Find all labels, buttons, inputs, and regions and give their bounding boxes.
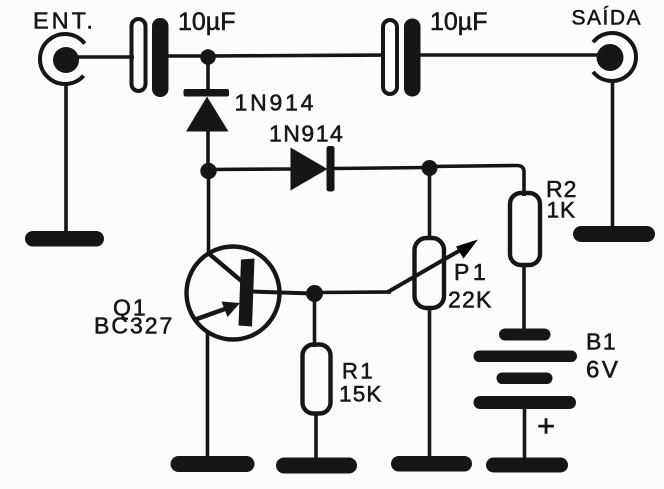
wire node C down to pot top: [428, 168, 432, 240]
svg-text:10µF: 10µF: [430, 8, 487, 36]
wire C1 to node A: [168, 54, 206, 58]
svg-text:BC327: BC327: [94, 313, 174, 339]
svg-text:1N914: 1N914: [235, 90, 317, 116]
wire node C to R2 (corner): [429, 166, 524, 197]
wire top rail node A to C2: [208, 55, 385, 56]
wire jack to C1: [78, 55, 134, 59]
wire node D to pot arrow: [314, 290, 391, 294]
svg-text:1K: 1K: [547, 198, 577, 223]
wire R2 to battery: [522, 265, 526, 332]
node B: [200, 163, 216, 179]
svg-text:P1: P1: [454, 259, 489, 285]
svg-text:6V: 6V: [586, 357, 620, 384]
svg-text:ENT.: ENT.: [33, 8, 96, 34]
svg-text:SAÍDA: SAÍDA: [572, 7, 643, 30]
ground (Q1 emitter): [171, 456, 255, 472]
ground (input): [25, 231, 104, 247]
wire node B to D2: [208, 167, 292, 171]
svg-text:1N914: 1N914: [269, 121, 344, 147]
battery B1: [474, 329, 578, 410]
svg-text:15K: 15K: [339, 382, 383, 407]
ground (battery): [486, 458, 568, 473]
wire D2 to node C: [334, 168, 428, 169]
wire Q1 emitter to ground: [206, 332, 210, 458]
wire pot bottom to ground: [428, 307, 432, 459]
wire node D down to R1: [313, 294, 317, 347]
ground (pot): [391, 456, 472, 472]
svg-text:10µF: 10µF: [178, 8, 235, 36]
potentiometer P1: [387, 238, 478, 308]
svg-text:B1: B1: [586, 329, 617, 355]
input jack ENT.: [40, 34, 85, 84]
node C: [422, 160, 438, 176]
wire D1 to node B: [206, 131, 210, 168]
ground (R1): [276, 458, 357, 474]
node D (base node): [306, 285, 323, 302]
wire node A down to D1: [206, 57, 210, 92]
svg-text:R1: R1: [342, 359, 375, 384]
wire battery to ground: [523, 405, 527, 460]
capacitor C1: [132, 18, 169, 97]
wire output jack down: [611, 81, 615, 230]
wire C2 to output jack: [420, 53, 598, 57]
capacitor C2: [383, 19, 421, 97]
ground (output): [573, 226, 655, 242]
diode D2 1N914 (horizontal, cathode right): [291, 146, 335, 192]
svg-text:22K: 22K: [448, 287, 493, 313]
wire node B down to Q1 collector: [207, 171, 211, 254]
diode D1 1N914 (vertical, cathode up): [184, 89, 230, 132]
wire input jack down: [64, 83, 68, 234]
svg-text:+: +: [537, 408, 555, 443]
wire R1 to ground: [314, 412, 318, 461]
resistor R1: [303, 345, 331, 414]
transistor Q1 BC327: [187, 247, 313, 340]
resistor R2: [510, 193, 540, 265]
output jack SAIDA: [593, 33, 636, 81]
node A: [200, 49, 216, 65]
